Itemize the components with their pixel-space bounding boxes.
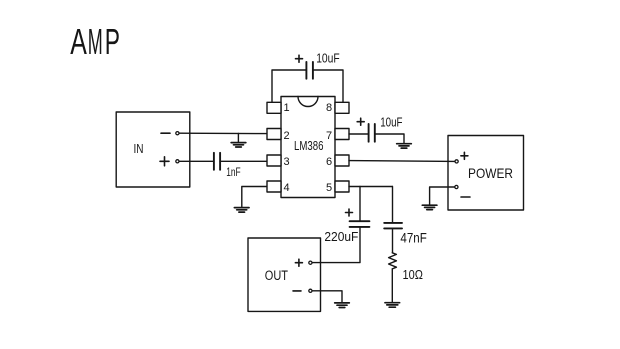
IN label xyxy=(134,141,144,156)
IN plus terminal xyxy=(176,160,179,163)
ground G2 xyxy=(234,208,249,213)
capacitor 1nF xyxy=(214,153,220,170)
wire pin 1 to bypass capacitor xyxy=(272,70,306,102)
wire capacitor to pin 8 xyxy=(313,70,343,102)
wire ground tap stub xyxy=(237,133,239,142)
pin 3 stub xyxy=(267,155,281,166)
svg-text:47nF: 47nF xyxy=(400,231,426,246)
pin number 5 xyxy=(326,182,332,194)
wire IN plus to capacitor xyxy=(179,160,214,162)
ground G5 xyxy=(335,303,350,308)
wire 220uF to OUT plus xyxy=(312,227,360,263)
plus polarity mark 220uF xyxy=(346,209,353,216)
capacitor 10uF bypass pin7 xyxy=(369,124,375,142)
pin 5 stub xyxy=(335,181,349,192)
svg-text:10uF: 10uF xyxy=(380,116,403,130)
pin number 2 xyxy=(283,130,289,142)
OUT plus terminal xyxy=(309,261,312,264)
wire pin 5 bus xyxy=(349,186,392,188)
ground G6 xyxy=(385,303,400,308)
wire capacitor to pin 3 xyxy=(220,160,267,162)
wire 47nF to resistor xyxy=(392,228,394,252)
wire junction to 47nF xyxy=(392,187,394,223)
1nF value label xyxy=(226,165,241,179)
svg-text:7: 7 xyxy=(326,130,332,142)
capacitor 220uF xyxy=(350,221,370,227)
pin 4 stub xyxy=(267,181,281,192)
svg-text:POWER: POWER xyxy=(468,165,513,181)
wire pin 7 to capacitor xyxy=(349,133,369,135)
wire pin 6 to POWER plus xyxy=(349,160,455,163)
wire OUT minus to ground xyxy=(312,291,342,303)
IN minus terminal xyxy=(176,132,179,135)
pin number 1 xyxy=(283,102,289,114)
OUT plus sign xyxy=(295,259,302,266)
svg-text:OUT: OUT xyxy=(265,268,288,283)
svg-text:4: 4 xyxy=(283,182,289,194)
svg-text:M: M xyxy=(88,21,103,62)
svg-text:3: 3 xyxy=(283,156,289,168)
wire POWER minus to ground xyxy=(430,187,455,205)
svg-text:220uF: 220uF xyxy=(324,229,358,244)
U1 notch xyxy=(298,97,318,107)
pin 2 stub xyxy=(267,129,281,140)
ground G4 xyxy=(422,205,437,209)
svg-text:10Ω: 10Ω xyxy=(403,268,423,282)
OUT minus terminal xyxy=(309,289,312,292)
pin 8 stub xyxy=(335,102,349,113)
svg-text:1: 1 xyxy=(283,102,289,114)
svg-text:LM386: LM386 xyxy=(294,139,324,153)
svg-text:P: P xyxy=(105,21,120,62)
pin 7 stub xyxy=(335,129,349,140)
pin 1 stub xyxy=(267,102,281,113)
plus polarity mark top cap xyxy=(296,55,303,62)
POWER minus sign xyxy=(461,196,470,198)
wire capacitor to ground xyxy=(375,134,404,143)
svg-text:A: A xyxy=(70,21,87,62)
pin number 7 xyxy=(326,130,332,142)
pin number 4 xyxy=(283,182,289,194)
POWER box xyxy=(448,136,524,211)
wire junction to 220uF xyxy=(359,187,361,222)
10uF value label top xyxy=(316,52,340,66)
220uF value label xyxy=(324,229,358,244)
pin number 6 xyxy=(326,156,332,168)
capacitor 10uF gain xyxy=(306,62,313,79)
47nF value label xyxy=(400,231,426,246)
pin number 8 xyxy=(326,102,332,114)
wire pin 4 to ground xyxy=(242,187,267,208)
IN box xyxy=(116,112,190,187)
POWER minus terminal xyxy=(455,185,458,188)
POWER label xyxy=(468,165,513,181)
OUT label xyxy=(265,268,288,283)
svg-text:10uF: 10uF xyxy=(316,52,340,66)
POWER plus sign xyxy=(461,152,468,159)
10 ohm value label xyxy=(403,268,423,282)
svg-text:5: 5 xyxy=(326,182,332,194)
IN plus sign xyxy=(160,157,169,166)
resistor 10 ohm xyxy=(389,253,397,269)
POWER plus terminal xyxy=(455,160,458,163)
svg-text:6: 6 xyxy=(326,156,332,168)
wire IN minus to pin 2 xyxy=(179,132,267,134)
plus polarity mark pin7 cap xyxy=(357,118,364,125)
U1 label LM386 xyxy=(294,139,324,153)
pin number 3 xyxy=(283,156,289,168)
svg-text:2: 2 xyxy=(283,130,289,142)
wire resistor to ground xyxy=(391,269,393,303)
IN minus sign xyxy=(161,132,170,134)
capacitor 47nF xyxy=(384,223,402,229)
svg-text:8: 8 xyxy=(326,102,332,114)
OUT minus sign xyxy=(293,290,301,292)
title AMP xyxy=(70,21,120,62)
op-amp U1 LM386 body xyxy=(281,97,335,198)
OUT box xyxy=(248,238,321,311)
10uF value label pin7 xyxy=(380,116,403,130)
pin 6 stub xyxy=(335,155,349,166)
ground G3 xyxy=(397,144,412,148)
svg-text:1nF: 1nF xyxy=(226,165,241,179)
ground G1 xyxy=(231,143,246,147)
svg-text:IN: IN xyxy=(134,141,144,156)
